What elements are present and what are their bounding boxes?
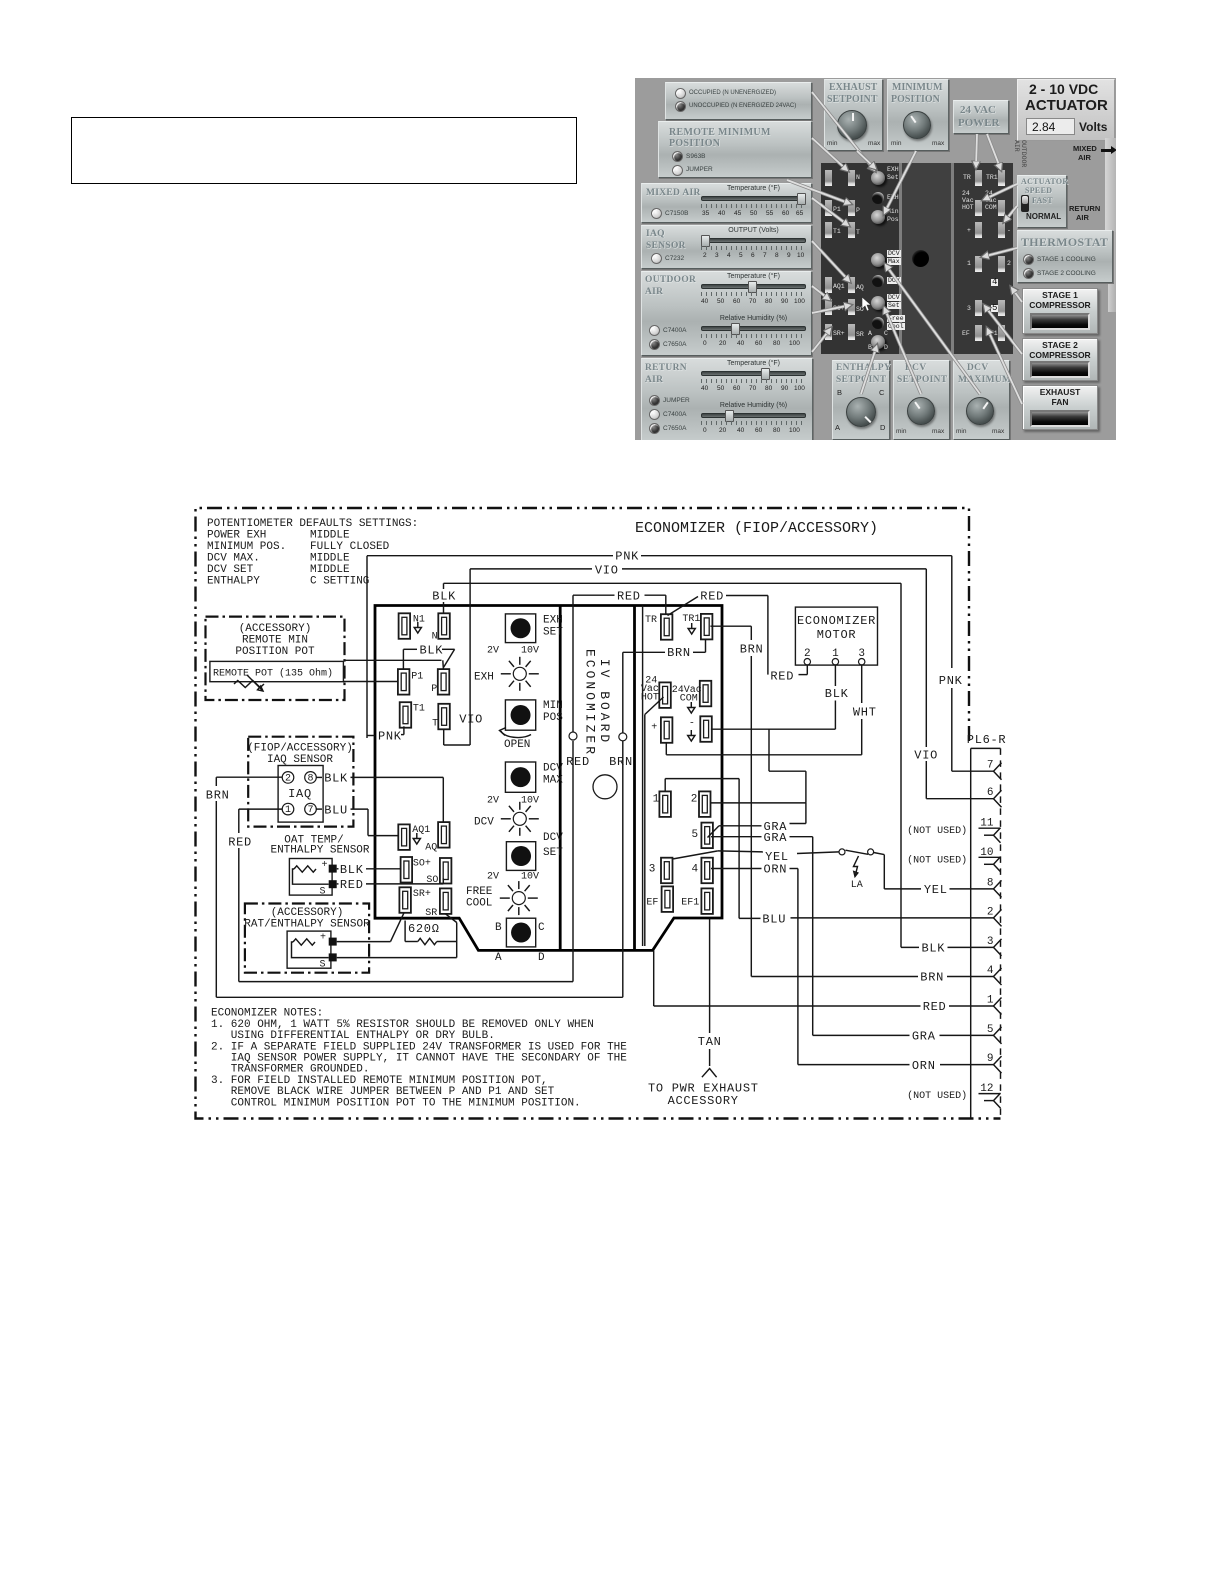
svg-text:MOTOR: MOTOR xyxy=(817,628,857,642)
svg-text:RED: RED xyxy=(617,590,641,604)
svg-text:ECONOMIZER (FIOP/ACCESSORY): ECONOMIZER (FIOP/ACCESSORY) xyxy=(635,520,878,537)
svg-text:P: P xyxy=(431,684,437,695)
svg-text:2. IF A SEPARATE FIELD SUPPLIE: 2. IF A SEPARATE FIELD SUPPLIED 24V TRAN… xyxy=(211,1041,627,1053)
svg-text:OPEN: OPEN xyxy=(504,739,530,751)
svg-text:MIDDLE: MIDDLE xyxy=(310,530,350,542)
svg-text:PNK: PNK xyxy=(939,674,963,688)
svg-text:BLK: BLK xyxy=(340,863,364,877)
svg-text:SR+: SR+ xyxy=(413,889,431,900)
svg-text:C SETTING: C SETTING xyxy=(310,576,369,588)
svg-text:ORN: ORN xyxy=(912,1059,936,1073)
svg-text:+: + xyxy=(322,860,328,871)
svg-text:VIO: VIO xyxy=(459,713,483,727)
svg-text:POSITION POT: POSITION POT xyxy=(235,646,315,658)
svg-text:COOL: COOL xyxy=(466,898,492,910)
svg-text:EXH: EXH xyxy=(474,672,494,684)
svg-text:VIO: VIO xyxy=(595,564,619,578)
svg-text:RED: RED xyxy=(228,836,252,850)
svg-text:ENTHALPY SENSOR: ENTHALPY SENSOR xyxy=(270,845,369,857)
svg-text:2: 2 xyxy=(285,773,291,784)
svg-text:ECONOMIZER: ECONOMIZER xyxy=(797,614,876,628)
svg-text:REMOVE BLACK WIRE JUMPER BETWE: REMOVE BLACK WIRE JUMPER BETWEEN P AND P… xyxy=(231,1086,555,1098)
svg-text:POS: POS xyxy=(543,712,563,724)
svg-text:10V: 10V xyxy=(521,646,539,657)
svg-text:IV BOARD: IV BOARD xyxy=(597,659,612,745)
svg-text:MIDDLE: MIDDLE xyxy=(310,564,350,576)
svg-text:FREE: FREE xyxy=(466,886,493,898)
svg-text:D: D xyxy=(538,952,545,964)
svg-text:A: A xyxy=(495,952,502,964)
svg-text:(NOT USED): (NOT USED) xyxy=(907,1090,967,1102)
svg-text:BRN: BRN xyxy=(920,971,944,985)
svg-text:IAQ: IAQ xyxy=(288,787,312,801)
svg-text:(FIOP/ACCESSORY): (FIOP/ACCESSORY) xyxy=(247,743,353,755)
svg-text:YEL: YEL xyxy=(924,883,948,897)
svg-text:BLK: BLK xyxy=(420,644,444,658)
svg-text:9: 9 xyxy=(987,1053,994,1065)
svg-text:CONTROL MINIMUM POSITION POT T: CONTROL MINIMUM POSITION POT TO THE MINI… xyxy=(231,1097,581,1109)
svg-text:3: 3 xyxy=(987,936,994,948)
svg-text:SET: SET xyxy=(543,847,563,859)
svg-text:BRN: BRN xyxy=(667,646,691,660)
svg-text:2V: 2V xyxy=(487,796,499,807)
svg-text:RAT/ENTHALPY SENSOR: RAT/ENTHALPY SENSOR xyxy=(244,919,370,931)
svg-text:ORN: ORN xyxy=(764,863,788,877)
svg-text:MIN: MIN xyxy=(543,700,563,712)
svg-text:BLU: BLU xyxy=(762,913,786,927)
svg-text:USING DIFFERENTIAL ENTHALPY OR: USING DIFFERENTIAL ENTHALPY OR DRY BULB. xyxy=(231,1030,495,1042)
svg-text:+: + xyxy=(651,723,657,734)
svg-text:ECONOMIZER: ECONOMIZER xyxy=(583,649,598,757)
svg-text:P1: P1 xyxy=(411,672,423,683)
svg-text:-: - xyxy=(689,719,695,730)
svg-text:7: 7 xyxy=(987,760,994,772)
svg-text:BRN: BRN xyxy=(609,755,633,769)
svg-text:TR: TR xyxy=(645,615,657,626)
svg-text:N: N xyxy=(432,632,438,643)
svg-text:REMOTE MIN: REMOTE MIN xyxy=(242,635,308,647)
svg-text:BLK: BLK xyxy=(324,772,348,786)
svg-text:REMOTE POT (135 Ohm): REMOTE POT (135 Ohm) xyxy=(213,668,333,680)
svg-text:POWER EXH: POWER EXH xyxy=(207,530,266,542)
svg-text:4: 4 xyxy=(692,864,699,876)
svg-text:ENTHALPY: ENTHALPY xyxy=(207,576,260,588)
svg-text:5: 5 xyxy=(692,829,699,841)
svg-text:BLU: BLU xyxy=(324,804,348,818)
svg-text:10V: 10V xyxy=(521,796,539,807)
svg-text:RED: RED xyxy=(770,670,794,684)
svg-text:LA: LA xyxy=(851,880,863,891)
svg-text:POTENTIOMETER DEFAULTS SETTING: POTENTIOMETER DEFAULTS SETTINGS: xyxy=(207,518,418,530)
svg-text:620Ω: 620Ω xyxy=(408,922,440,936)
svg-text:TAN: TAN xyxy=(698,1035,722,1049)
svg-text:RED: RED xyxy=(923,1000,947,1014)
svg-text:GRA: GRA xyxy=(764,831,788,845)
svg-text:ECONOMIZER NOTES:: ECONOMIZER NOTES: xyxy=(211,1008,323,1020)
svg-text:PNK: PNK xyxy=(378,730,402,744)
svg-text:SO+: SO+ xyxy=(413,859,431,870)
svg-text:RED: RED xyxy=(700,590,724,604)
svg-text:PL6-R: PL6-R xyxy=(967,733,1007,747)
svg-text:(NOT USED): (NOT USED) xyxy=(907,854,967,866)
svg-text:IAQ SENSOR: IAQ SENSOR xyxy=(267,754,333,766)
svg-text:SR: SR xyxy=(425,908,437,919)
svg-text:+: + xyxy=(320,933,326,944)
svg-text:8: 8 xyxy=(307,773,313,784)
svg-text:DCV MAX.: DCV MAX. xyxy=(207,553,260,565)
svg-text:RED: RED xyxy=(340,878,364,892)
svg-text:1: 1 xyxy=(653,794,660,806)
svg-text:HOT: HOT xyxy=(641,692,659,703)
svg-text:1. 620 OHM, 1 WATT 5% RESISTOR: 1. 620 OHM, 1 WATT 5% RESISTOR SHOULD BE… xyxy=(211,1019,594,1031)
svg-text:N1: N1 xyxy=(413,615,425,626)
svg-text:B: B xyxy=(495,922,502,934)
svg-text:3. FOR FIELD INSTALLED REMOTE: 3. FOR FIELD INSTALLED REMOTE MINIMUM PO… xyxy=(211,1075,548,1087)
svg-text:DCV: DCV xyxy=(543,832,563,844)
svg-text:ACCESSORY: ACCESSORY xyxy=(668,1094,739,1108)
svg-text:2V: 2V xyxy=(487,646,499,657)
svg-text:(ACCESSORY): (ACCESSORY) xyxy=(271,907,344,919)
svg-text:5: 5 xyxy=(987,1024,994,1036)
svg-text:S: S xyxy=(320,960,326,971)
svg-text:8: 8 xyxy=(987,877,994,889)
svg-text:TRANSFORMER GROUNDED.: TRANSFORMER GROUNDED. xyxy=(231,1064,370,1076)
svg-text:EF: EF xyxy=(646,898,658,909)
svg-text:EXH: EXH xyxy=(543,615,563,627)
svg-text:BLK: BLK xyxy=(825,687,849,701)
svg-text:WHT: WHT xyxy=(853,706,877,720)
svg-text:VIO: VIO xyxy=(914,749,938,763)
svg-text:BLK: BLK xyxy=(922,942,946,956)
svg-text:S: S xyxy=(320,887,326,898)
svg-text:MAX: MAX xyxy=(543,775,563,787)
svg-text:MIDDLE: MIDDLE xyxy=(310,553,350,565)
svg-text:PNK: PNK xyxy=(615,550,639,564)
svg-text:7: 7 xyxy=(307,805,313,816)
svg-text:BLK: BLK xyxy=(432,590,456,604)
svg-text:3: 3 xyxy=(649,864,656,876)
svg-text:COM: COM xyxy=(680,694,698,705)
svg-text:EF1: EF1 xyxy=(681,898,699,909)
svg-text:BRN: BRN xyxy=(740,643,764,657)
svg-text:2: 2 xyxy=(987,906,994,918)
svg-text:AQ: AQ xyxy=(425,843,437,854)
svg-text:(NOT USED): (NOT USED) xyxy=(907,825,967,837)
svg-text:(ACCESSORY): (ACCESSORY) xyxy=(239,623,312,635)
svg-text:FULLY CLOSED: FULLY CLOSED xyxy=(310,541,390,553)
svg-text:10V: 10V xyxy=(521,872,539,883)
svg-text:T1: T1 xyxy=(413,704,425,715)
svg-text:AQ1: AQ1 xyxy=(412,825,430,836)
svg-text:IAQ SENSOR POWER SUPPLY, IT CA: IAQ SENSOR POWER SUPPLY, IT CANNOT HAVE … xyxy=(231,1053,627,1065)
svg-text:BRN: BRN xyxy=(206,789,230,803)
svg-text:SET: SET xyxy=(543,627,563,639)
svg-text:T: T xyxy=(432,719,438,730)
svg-text:DCV: DCV xyxy=(474,817,494,829)
svg-text:DCV SET: DCV SET xyxy=(207,564,254,576)
svg-text:1: 1 xyxy=(285,805,291,816)
svg-text:6: 6 xyxy=(987,787,994,799)
svg-text:4: 4 xyxy=(987,965,994,977)
svg-text:C: C xyxy=(538,922,545,934)
svg-text:GRA: GRA xyxy=(912,1030,936,1044)
svg-text:DCV: DCV xyxy=(543,763,563,775)
svg-text:RED: RED xyxy=(566,755,590,769)
svg-text:2V: 2V xyxy=(487,872,499,883)
svg-text:2: 2 xyxy=(691,794,698,806)
svg-text:MINIMUM POS.: MINIMUM POS. xyxy=(207,541,286,553)
svg-text:1: 1 xyxy=(987,995,994,1007)
